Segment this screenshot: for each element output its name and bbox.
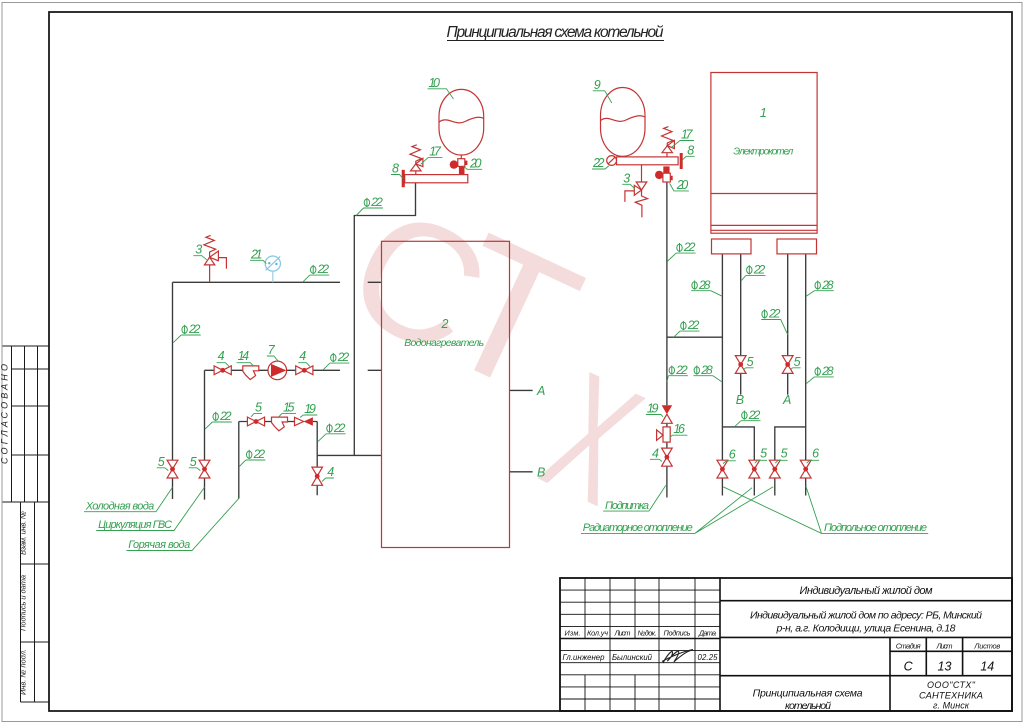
label ф28 boiler right [806,278,834,297]
label 19 check make-up [646,402,663,417]
label 5 coil B valve [743,355,753,370]
ball valve 5 (cold riser) [167,460,178,478]
svg-text:котельной: котельной [785,700,831,712]
wire node A stub [510,389,533,391]
label 8 flange right [682,143,695,160]
wire node B stub [510,471,533,473]
label ф22 make-up top [667,240,696,261]
label ф28 boiler left mid [693,363,722,382]
safety valve 17 (tank 10) [410,145,423,175]
label 6 floor return valve [807,447,820,464]
svg-text:5: 5 [190,455,197,469]
wire expansion tank 10 to header [354,183,415,456]
relief valve 3 (boiler circuit) [625,165,648,218]
label 14 strainer [237,349,254,366]
label ф22 on tank10 drop [356,195,383,215]
svg-text:5: 5 [781,447,788,461]
boiler terminal box right [777,239,817,254]
expansion tank 9 [601,88,646,157]
label 20 fill make-up [670,178,689,192]
label Подпитка [603,485,666,511]
wire boiler pipe ф22 B [740,254,742,395]
label 7 pump [267,343,279,361]
svg-text:Индивидуальный жилой дом по ад: Индивидуальный жилой дом по адресу: РБ, … [750,610,982,622]
label 16 reducer [670,422,687,437]
air header (tank 9) [617,157,679,165]
label ф28 boiler left [691,278,722,296]
svg-text:17: 17 [429,144,442,158]
label 20 fill valve tank10 [463,156,482,170]
svg-text:2: 2 [441,317,449,331]
label ф22 hot riser [239,447,265,467]
svg-text:17: 17 [681,128,694,142]
svg-text:Циркуляция ГВС: Циркуляция ГВС [98,519,172,531]
svg-text:14: 14 [238,349,250,363]
svg-text:г. Минск: г. Минск [933,701,970,711]
svg-text:Принципиальная схема котельной: Принципиальная схема котельной [447,24,664,41]
ball valve 6 (floor supply) [717,460,728,478]
label ф28 boiler right mid [806,364,834,384]
svg-text:А: А [536,384,545,398]
left margin lower blocks [21,502,50,702]
svg-text:Подпитка: Подпитка [605,500,649,512]
label 17 valve tank9 [672,128,694,148]
svg-text:4: 4 [218,349,225,363]
electric boiler 1 body [711,73,817,234]
svg-text:Холодная вода: Холодная вода [85,500,155,512]
label ф22 circulation riser [205,409,232,429]
label 19 check hot [300,402,317,418]
svg-text:В: В [537,466,545,480]
ball valve 4 (drain) [312,467,323,485]
strainer 14 [243,366,259,380]
svg-text:14: 14 [980,660,994,674]
svg-text:Стадия: Стадия [896,642,921,651]
safety valve 17 (tank 9) [662,127,675,157]
ball valve 6 (floor return) [800,460,811,478]
svg-text:9: 9 [594,78,601,92]
check valve 19 (make-up) [662,405,673,423]
ball valve 4 (circulation inlet) [214,366,231,375]
svg-text:Электрокотел: Электрокотел [733,147,793,158]
label ф22 coil B pipe [741,263,766,281]
svg-text:В: В [736,393,744,407]
svg-text:4: 4 [652,446,659,460]
svg-text:Лист: Лист [614,629,631,638]
svg-text:С: С [904,660,914,674]
wire cold water riser [172,282,174,499]
label 5 radiator return valve [775,447,787,464]
label 8 flange left [391,162,403,179]
tank 10 stem [460,155,462,159]
svg-text:Принципиальная схема: Принципиальная схема [753,687,863,699]
strainer 15 [272,417,288,431]
ball valve 5 (radiator supply) [749,460,760,478]
svg-text:15: 15 [283,400,295,414]
check valve 19 (hot water) [295,417,313,425]
label 4 make-up valve [650,446,662,461]
label ф22 cold riser [173,322,201,343]
wire boiler pipe ф28 left [721,254,723,496]
label Холодная вода [84,487,173,512]
svg-text:Подпись: Подпись [664,629,691,638]
label ф22 circulation right [323,350,350,370]
title block outer [560,578,1012,711]
svg-text:А: А [782,393,791,407]
svg-text:5: 5 [794,355,801,369]
title underline [447,40,664,42]
ball valve 5 (hot water) [247,417,264,426]
label 17 valve tank10 [421,144,443,164]
svg-text:1: 1 [760,106,767,120]
svg-text:6: 6 [729,447,736,461]
relief valve 3 (cold water) [204,235,227,282]
svg-text:Подпольное отопление: Подпольное отопление [824,522,927,534]
title block revision table [560,578,720,711]
svg-text:ООО"СТХ": ООО"СТХ" [927,680,976,690]
left margin approval grid [3,346,50,502]
ball valve 5 (coil B) [735,356,746,374]
label 21 sensor [250,247,266,263]
label ф22 coil A pipe [761,307,788,335]
label 5 coil A valve [790,355,800,370]
svg-text:Индивидуальный жилой дом: Индивидуальный жилой дом [800,585,933,597]
ball valve 5 (radiator return) [769,460,780,478]
flange 8 right [680,153,683,169]
wire drain below junction [316,455,318,495]
svg-text:Подпись и дата: Подпись и дата [19,575,28,631]
ball valve 5 (coil A) [782,356,793,374]
label 5 circulation riser valve [189,455,201,471]
label Подпольное отопление [723,486,928,534]
svg-text:5: 5 [747,355,754,369]
label 3 relief cold [193,243,207,260]
svg-text:02.25: 02.25 [698,653,719,662]
wire circulation horizontal (gaps at valves, pump, crossing) [205,369,382,371]
wire hot water corner down [316,422,318,456]
pressure gauge 22 [607,156,617,166]
wire boiler pipe ф28 right [805,254,807,496]
label ф22 radiator branch [735,408,761,427]
svg-text:8: 8 [687,143,694,157]
wire radiator branch left [722,427,754,496]
svg-text:5: 5 [760,447,767,461]
svg-text:8: 8 [392,162,399,176]
label 5 radiator supply valve [755,447,767,464]
label ф22 hot corner [318,421,346,442]
svg-text:САНТЕХНИКА: САНТЕХНИКА [919,691,983,701]
svg-text:Изм.: Изм. [565,629,581,638]
svg-text:№док.: №док. [638,629,657,638]
label 5 cold riser valve [157,455,169,471]
flange 8 left [402,170,405,187]
svg-text:4: 4 [327,465,334,479]
svg-text:5: 5 [158,455,165,469]
label ф22 cold horizontal [303,262,330,282]
fill valve 20 (tank 10) [450,159,468,175]
svg-text:19: 19 [647,402,659,416]
ball valve 4 (make-up) [662,448,673,466]
svg-text:СОГЛАСОВАНО: СОГЛАСОВАНО [0,364,10,464]
svg-text:20: 20 [469,156,482,170]
label 4 drain [322,465,334,482]
wire cold water horizontal (gap at crossing) [173,281,382,283]
title block heavy dividers [560,578,1012,711]
svg-text:Лист: Лист [936,642,953,651]
watermark СТХ [321,170,665,541]
ball valve 4 (circulation outlet) [296,366,313,375]
label Горячая вода [126,498,238,551]
svg-text:Инв. № подл.: Инв. № подл. [19,649,28,695]
label Радиаторное отопление [581,487,773,534]
svg-text:4: 4 [299,349,306,363]
svg-text:Горячая вода: Горячая вода [128,539,190,551]
label ф22 tee [674,318,700,337]
svg-text:р-н, а.г. Колодищи, улица Есен: р-н, а.г. Колодищи, улица Есенина, д.18 [776,623,956,635]
signature [662,650,693,664]
svg-text:3: 3 [195,243,202,257]
svg-text:21: 21 [250,247,263,261]
svg-text:Дата: Дата [698,629,716,638]
svg-text:Листов: Листов [973,642,1000,651]
svg-text:20: 20 [676,178,689,192]
svg-text:6: 6 [812,447,819,461]
pressure reducer 16 [657,427,671,442]
wire make-up line [666,182,668,498]
wire make-up tee to boiler return [667,336,723,338]
ball valve 5 (circulation riser) [199,460,210,478]
air header (tank 10) [405,175,468,183]
boiler terminal box left [712,239,752,254]
svg-text:5: 5 [255,400,262,414]
svg-text:10: 10 [429,76,441,90]
svg-text:Радиаторное отопление: Радиаторное отопление [583,522,693,534]
label 3 relief boiler [622,171,634,188]
label 6 floor supply valve [723,447,736,463]
wire hot water riser [238,422,240,499]
svg-text:Взам. инв. №: Взам. инв. № [19,511,28,555]
label ф22 make-up mid [667,363,688,382]
svg-text:Водонагреватель: Водонагреватель [404,337,484,349]
svg-text:16: 16 [673,422,685,436]
svg-text:19: 19 [304,402,316,416]
label 15 strainer [279,400,296,416]
pump 7 [268,361,287,380]
wire boiler pipe ф22 A [787,254,789,395]
sensor 21 [265,256,280,282]
svg-text:22: 22 [592,156,605,170]
label 10 tank [428,76,454,99]
svg-text:Былинский: Былинский [612,653,653,662]
label 4 circulation outlet [298,349,310,366]
wire DHW circulation riser [204,370,206,499]
label 9 tank [593,78,612,103]
svg-text:3: 3 [623,171,630,185]
wire hot water horizontal (gaps at valves) [239,421,317,423]
svg-text:7: 7 [268,343,276,357]
label 22 gauge [592,156,609,170]
svg-text:Гл.инженер: Гл.инженер [563,653,606,662]
water heater 2 [382,241,510,547]
label 4 circulation inlet [217,349,229,366]
label Циркуляция ГВС [96,487,204,531]
wire heater inlet header [317,454,381,456]
label 5 hot valve [251,400,262,416]
expansion tank 10 [439,89,484,155]
fill valve 20 (make-up) [655,166,673,182]
svg-text:13: 13 [938,660,952,674]
svg-text:Кол.уч: Кол.уч [587,629,608,638]
wire radiator branch right [775,427,806,496]
